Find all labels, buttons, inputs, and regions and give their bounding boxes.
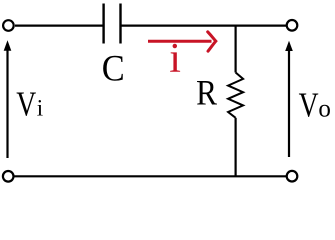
terminal bottom-left bbox=[3, 171, 14, 182]
capacitor C left plate bbox=[102, 4, 104, 44]
wire bottom bbox=[15, 175, 287, 177]
svg-text:V: V bbox=[16, 85, 36, 124]
current arrow i head bbox=[208, 32, 216, 51]
current arrow i shaft bbox=[148, 40, 212, 43]
Vo arrow shaft bbox=[288, 50, 290, 158]
Vi arrow shaft bbox=[6, 50, 8, 159]
wire top-left segment bbox=[15, 25, 103, 27]
resistor R zigzag bbox=[228, 73, 243, 118]
svg-text:o: o bbox=[318, 96, 331, 123]
wire top-right segment bbox=[122, 25, 287, 27]
svg-text:i: i bbox=[37, 96, 43, 121]
terminal top-right bbox=[287, 20, 298, 31]
svg-text:R: R bbox=[196, 74, 217, 113]
resistor R top lead bbox=[235, 26, 237, 73]
Vo arrow head bbox=[285, 41, 293, 51]
svg-text:i: i bbox=[169, 36, 181, 82]
svg-text:V: V bbox=[299, 85, 319, 124]
capacitor C right plate bbox=[119, 4, 121, 44]
terminal top-left bbox=[3, 20, 14, 31]
terminal bottom-right bbox=[287, 171, 298, 182]
svg-text:C: C bbox=[102, 47, 125, 88]
resistor R bottom lead bbox=[235, 118, 237, 177]
Vi arrow head bbox=[4, 40, 12, 51]
